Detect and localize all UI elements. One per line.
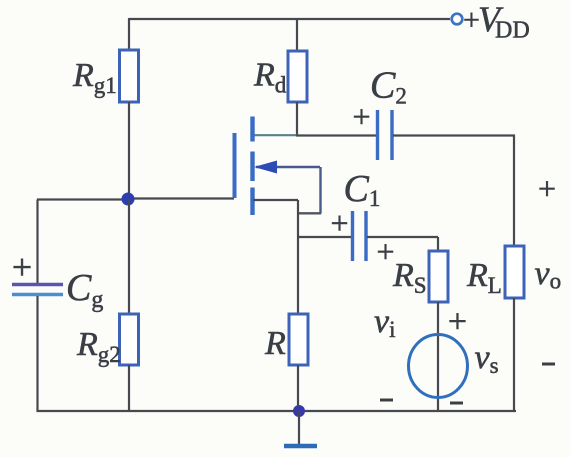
capacitor C2 left plate [376, 110, 379, 160]
label vo minus sign [542, 363, 555, 366]
svg-text:RL: RL [466, 257, 502, 298]
wire top rail to Rd [296, 19, 298, 51]
capacitor C1 right plate [364, 211, 367, 261]
label vi minus sign [380, 399, 393, 402]
wire gate node to gate bar [128, 197, 234, 199]
wire bottom rail [37, 410, 517, 412]
wire RL bottom to bottom rail [513, 298, 515, 411]
ground bar [284, 444, 317, 449]
svg-text:vo: vo [535, 255, 562, 294]
svg-text:+: + [352, 99, 370, 135]
transistor M1 gate bar [233, 133, 237, 198]
svg-text:+: + [330, 205, 348, 241]
svg-text:DD: DD [495, 18, 530, 44]
transistor M1 channel dash body segment [250, 152, 254, 182]
wire top rail [129, 18, 450, 20]
transistor M1 channel dash source segment [250, 188, 254, 216]
transistor M1 channel dash drain segment [250, 117, 254, 142]
svg-text:vs: vs [475, 339, 499, 378]
svg-text:Rg1: Rg1 [72, 57, 117, 98]
svg-text:+: + [376, 233, 394, 269]
wire Rg1 bottom to gate node [128, 102, 130, 199]
svg-text:+: + [538, 170, 556, 206]
resistor Rg2 [120, 314, 139, 365]
wire RS bottom through vs to bottom rail [437, 302, 439, 411]
terminal +VDD circle [452, 14, 463, 25]
wire source line [253, 199, 298, 201]
resistor Rg1 [120, 50, 139, 102]
wire gate node down to Rg2 [128, 199, 130, 314]
node gate junction dot [122, 193, 135, 206]
resistor RS [429, 251, 448, 302]
wire source drop to C1 tee [297, 200, 299, 314]
wire Cg bottom plate to bottom rail [36, 296, 38, 412]
node bottom junction dot [293, 405, 305, 417]
source vs circle [409, 335, 468, 398]
capacitor Cg bottom plate [12, 293, 63, 297]
ground stub [298, 411, 300, 444]
wire Rd bottom to drain line [296, 102, 298, 136]
wire C2 right plate to right rail [393, 134, 515, 136]
wire far-left drop to Cg top plate [36, 200, 38, 284]
svg-text:+: + [448, 304, 467, 341]
svg-text:RS: RS [392, 257, 427, 298]
svg-text:vi: vi [374, 303, 395, 342]
wire C1 line from source node [298, 236, 351, 238]
wire Rg2 bottom to bottom rail [128, 365, 130, 411]
capacitor Cg top plate [12, 283, 63, 287]
svg-text:C1: C1 [344, 168, 381, 211]
svg-text:Cg: Cg [66, 267, 103, 313]
transistor M1 body wire down [319, 167, 321, 214]
transistor M1 body arrowhead [254, 161, 277, 174]
wire RS top drop [437, 237, 439, 251]
wire drain line from channel to Rd tee [253, 134, 298, 136]
wire R bottom to bottom rail [297, 365, 299, 411]
svg-text:Rd: Rd [253, 57, 287, 98]
transistor M1 body wire to source [299, 212, 321, 214]
resistor R [289, 314, 308, 365]
svg-text:Rg2: Rg2 [76, 326, 121, 367]
svg-text:C2: C2 [370, 65, 407, 109]
wire drain tee to C2 left plate [296, 134, 376, 136]
capacitor C1 left plate [351, 211, 354, 261]
label vs minus sign [450, 402, 463, 405]
transistor M1 body arrow line [256, 166, 320, 168]
wire right rail down to RL [513, 135, 515, 246]
wire left drop from rail to Rg1 [128, 18, 130, 51]
wire gate node to far-left branch [37, 198, 129, 200]
wire C1 right plate to RS [367, 236, 438, 238]
resistor RL [505, 246, 524, 298]
svg-text:+: + [12, 247, 32, 287]
svg-text:R: R [264, 325, 286, 362]
capacitor C2 right plate [390, 110, 393, 160]
resistor Rd [288, 51, 307, 102]
